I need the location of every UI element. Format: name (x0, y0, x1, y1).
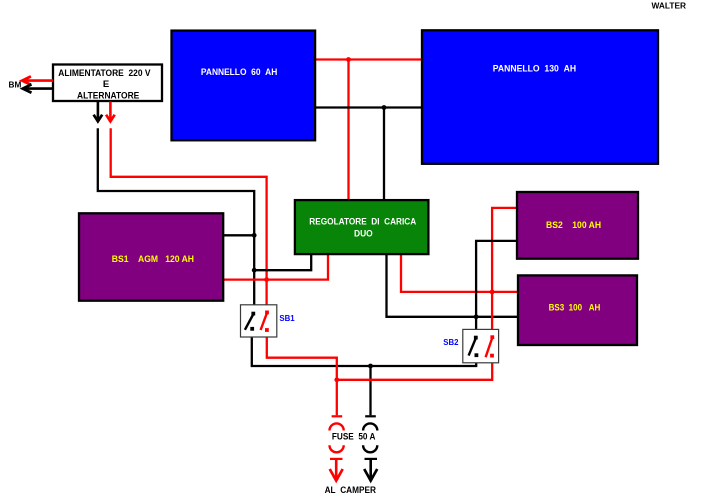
svg-text:ALIMENTATORE 220 V: ALIMENTATORE 220 V (58, 68, 151, 79)
switch SB2 black contact bottom (475, 353, 479, 357)
wire red: pannello60 to pannello130 (315, 58, 422, 60)
arrow black to camper (369, 460, 372, 480)
wire red: regolatore bottom-right to BS3 (401, 254, 518, 292)
wire red: BS2 to SB2 (492, 208, 517, 336)
wire red: bottom bus SB1 to SB2 (267, 331, 492, 380)
node red junction top (346, 57, 351, 62)
svg-text:DUO: DUO (354, 228, 373, 239)
fuse F1 red lower arc (330, 445, 344, 452)
box PANNELLO 60 AH (172, 31, 316, 141)
wire black: BS1 plus stub (223, 234, 254, 236)
switch SB1 red contact top (265, 311, 269, 315)
svg-text:BS2 100 AH: BS2 100 AH (546, 220, 601, 230)
switch SB2 red blade (486, 338, 493, 358)
switch SB1 box (241, 305, 277, 337)
switch SB1 red contact bottom (265, 328, 269, 332)
svg-text:REGOLATORE DI CARICA: REGOLATORE DI CARICA (309, 216, 416, 227)
node black bus junction (368, 364, 373, 369)
svg-text:PANNELLO 60 AH: PANNELLO 60 AH (201, 67, 278, 78)
svg-text:BM: BM (9, 80, 22, 90)
svg-text:PANNELLO 130 AH: PANNELLO 130 AH (493, 63, 576, 74)
wire black: regolatore bottom-left to vertical (254, 254, 311, 270)
node black junction top (382, 105, 387, 110)
fuse F1 red terminal bar bottom (330, 458, 343, 460)
arrow red down from alternatore (109, 102, 112, 121)
wire red: BS1 to regolatore bottom (223, 254, 328, 280)
wire red: bus down to fuse (336, 380, 338, 416)
box ALIMENTATORE 220V E ALTERNATORE (53, 65, 162, 102)
node black junction regolatore-left (252, 268, 257, 273)
wire red: alternatore down, right, down to SB1 (111, 128, 267, 311)
svg-text:SB2: SB2 (443, 337, 458, 347)
switch SB1 black contact bottom (250, 327, 254, 331)
arrow red to camper (335, 460, 338, 480)
svg-text:BS1 AGM 120 AH: BS1 AGM 120 AH (112, 254, 195, 264)
arrow black to BM (24, 87, 54, 90)
fuse F2 black upper arc (363, 423, 377, 430)
switch SB2 black blade (469, 338, 476, 356)
box PANNELLO 130 AH (422, 30, 658, 164)
svg-text:WALTER: WALTER (652, 1, 687, 11)
wire black: bus down to fuse (369, 366, 371, 415)
arrow red to BM (23, 79, 53, 82)
svg-text:E: E (103, 79, 109, 90)
box BS2 100 AH (517, 192, 638, 259)
wire black: bottom bus SB1 to SB2 (252, 331, 476, 367)
box BS3 100 AH (518, 275, 637, 345)
wire black: alternatore down, right, down to SB1 (98, 128, 254, 312)
fuse F1 red terminal bar top (332, 415, 343, 417)
node black BS1 stub junction (252, 233, 257, 238)
node red junction BS1 wire (264, 277, 269, 282)
node red junction near BS3 (490, 290, 495, 295)
switch SB1 black blade (245, 314, 254, 330)
switch SB2 red contact top (490, 335, 494, 339)
box BS1 AGM 120 AH (79, 213, 223, 300)
wire black: junction down to regolatore top (383, 108, 385, 201)
switch SB2 box (463, 329, 499, 362)
fuse F1 red upper arc (330, 423, 344, 430)
switch SB2 black contact top (474, 336, 478, 340)
fuse F2 black terminal bar bottom (365, 458, 378, 460)
fuse F2 black terminal bar top (365, 415, 376, 417)
wire red: junction down to regolatore top (347, 60, 349, 201)
switch SB1 black contact top (251, 312, 255, 316)
arrow black down from alternatore (97, 102, 100, 121)
node red bus junction (334, 377, 339, 382)
svg-text:ALTERNATORE: ALTERNATORE (77, 90, 139, 101)
svg-text:AL CAMPER: AL CAMPER (325, 485, 377, 495)
switch SB2 red contact bottom (490, 354, 494, 358)
node black junction near BS3 (474, 314, 479, 319)
wire black: regolatore bottom-right to BS3 (387, 254, 519, 317)
svg-text:FUSE 50 A: FUSE 50 A (332, 431, 376, 441)
switch SB1 red blade (261, 313, 267, 330)
fuse F2 black lower arc (363, 445, 377, 452)
svg-text:BS3 100 AH: BS3 100 AH (549, 303, 601, 313)
box REGOLATORE DI CARICA DUO (295, 200, 429, 254)
svg-text:SB1: SB1 (279, 313, 295, 323)
wire black: pannello60 to pannello130 (315, 106, 422, 108)
wire black: BS2 to SB2 (476, 241, 517, 337)
